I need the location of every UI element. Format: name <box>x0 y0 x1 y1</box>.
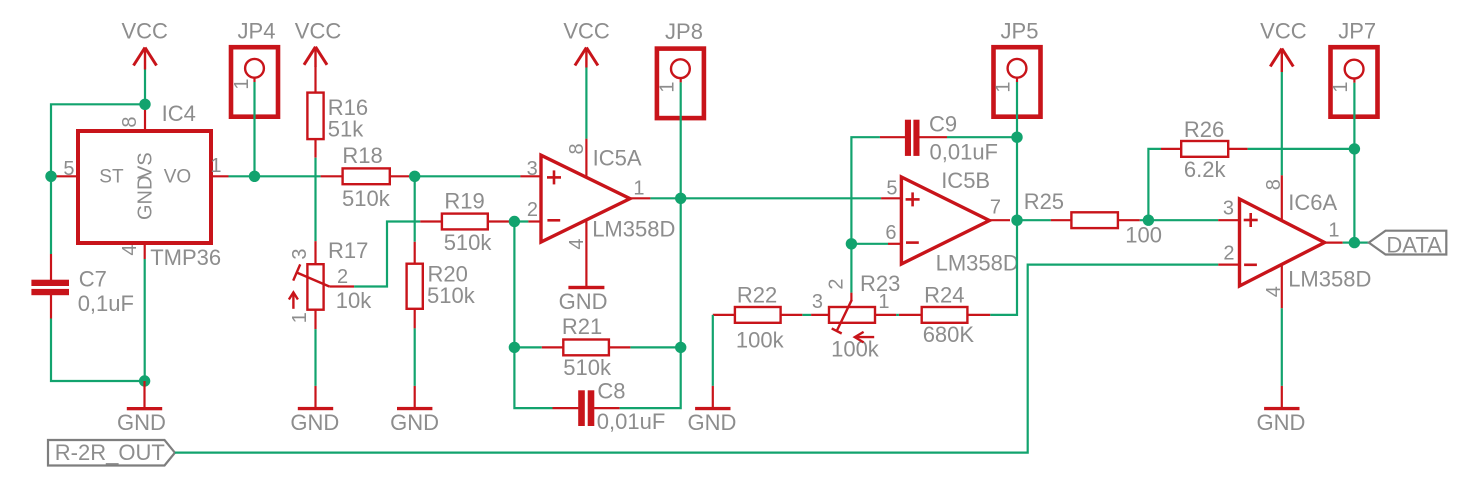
power symbol VCC (net VCC, at IC4 pin 8) <box>121 19 168 70</box>
wire IC5A output to IC5B pin 5 <box>650 197 881 199</box>
junction at R21 left <box>509 342 520 353</box>
junction above IC4 pin 8 <box>139 99 150 110</box>
svg-text:R-2R_OUT: R-2R_OUT <box>55 440 165 465</box>
svg-text:IC5A: IC5A <box>593 146 642 171</box>
wire to R21 left <box>514 346 541 348</box>
svg-text:LM358D: LM358D <box>1288 267 1371 292</box>
connector JP7 <box>1330 19 1378 117</box>
wire R20 to GND <box>414 328 416 386</box>
pin 3 stub of R23 <box>811 291 829 315</box>
svg-text:2: 2 <box>337 266 348 288</box>
svg-text:8: 8 <box>566 143 588 154</box>
junction at IC6A output / DATA <box>1349 237 1360 248</box>
pin 2 stub of R23 <box>826 278 852 300</box>
svg-text:3: 3 <box>289 249 311 260</box>
pin 2 stub of IC6A <box>1218 242 1238 264</box>
wire R25 to IC6A pin 3 <box>1140 219 1218 221</box>
connector JP5 <box>993 19 1041 117</box>
pin 1 stub of IC6A <box>1325 219 1343 242</box>
resistor R26 6.2k <box>1161 117 1248 182</box>
svg-text:JP7: JP7 <box>1338 19 1376 44</box>
svg-text:IC4: IC4 <box>162 101 196 126</box>
svg-text:680K: 680K <box>923 322 975 347</box>
svg-text:1: 1 <box>289 312 311 323</box>
wire VCC to IC5A pin 8 <box>585 68 587 139</box>
svg-text:1: 1 <box>1330 81 1352 92</box>
wire R22 left down to GND <box>712 315 714 386</box>
wire JP5 junction down to IC5B output <box>1016 137 1018 220</box>
svg-text:GND: GND <box>134 176 156 220</box>
svg-text:C9: C9 <box>929 111 957 136</box>
resistor R19 510k <box>420 188 509 254</box>
svg-text:100k: 100k <box>736 327 785 352</box>
junction at IC5B output <box>1011 215 1022 226</box>
resistor R24 680K <box>899 282 990 347</box>
svg-text:510k: 510k <box>444 230 493 255</box>
net flag DATA <box>1369 231 1447 258</box>
wiper of R17 with slot tick <box>293 264 329 286</box>
wire ST junction down to C7 <box>50 176 52 254</box>
svg-text:IC6A: IC6A <box>1288 190 1337 215</box>
svg-text:VCC: VCC <box>295 19 342 44</box>
pin stub R20 top <box>414 242 416 264</box>
svg-text:510k: 510k <box>342 186 391 211</box>
power symbol VCC (above R16) <box>295 19 342 67</box>
capacitor C8 0,01uF <box>553 378 666 433</box>
svg-text:100: 100 <box>1125 223 1162 248</box>
svg-text:510k: 510k <box>427 283 476 308</box>
wire IC5B output junction down to R24 <box>990 220 1017 315</box>
svg-text:GND: GND <box>117 410 166 435</box>
svg-text:GND: GND <box>688 410 737 435</box>
svg-text:5: 5 <box>886 177 897 199</box>
pin 4 stub of IC5A <box>566 220 588 286</box>
plus input marker IC5B <box>906 198 920 201</box>
pin 1 stub of IC5A <box>630 178 650 200</box>
svg-text:1: 1 <box>657 81 679 92</box>
wire R19 to IC5A pin 2 <box>510 220 529 222</box>
pin 1 stub of JP4 <box>253 78 255 82</box>
svg-text:2: 2 <box>1223 242 1234 264</box>
minus input marker IC5A <box>547 219 560 222</box>
junction at R25 / R26 <box>1143 215 1154 226</box>
wire R22 to R23 pin 3 <box>802 314 811 316</box>
pin 1 stub of JP5 <box>1016 78 1018 82</box>
svg-text:1: 1 <box>210 155 221 177</box>
wire R17 pin 1 to GND <box>314 329 316 386</box>
pin 1 stub of R17 <box>289 309 316 330</box>
wire JP7 junction down to DATA node <box>1353 149 1355 243</box>
op-amp U IC5B LM358D <box>901 168 1018 276</box>
pin 8 stub of IC6A <box>1263 175 1285 220</box>
pin 6 stub of IC5B <box>885 222 900 244</box>
pin 1 (VO) stub of IC4 <box>210 155 228 177</box>
wire junction up to R26 <box>1148 149 1161 220</box>
wire C9 right to JP5 junction <box>947 136 1017 138</box>
svg-text:R17: R17 <box>328 238 368 263</box>
wire JP5 pin 1 down to C9 junction <box>1016 82 1018 137</box>
svg-text:2: 2 <box>826 278 848 289</box>
svg-text:C7: C7 <box>79 267 107 292</box>
adjustment arrow of R23 <box>855 332 874 343</box>
svg-text:7: 7 <box>990 196 1001 218</box>
svg-text:VCC: VCC <box>563 19 610 44</box>
op-amp U IC6A LM358D <box>1240 190 1372 292</box>
junction at R18/R20 <box>409 171 420 182</box>
svg-text:R24: R24 <box>924 282 964 307</box>
trimmer R23 100k body <box>829 271 900 362</box>
wire R21 left junction down to C8 <box>514 347 552 408</box>
svg-text:6: 6 <box>885 222 896 244</box>
svg-text:8: 8 <box>1263 179 1285 190</box>
wire R16 to R17 <box>314 158 316 242</box>
minus input marker IC5B <box>906 241 919 244</box>
wire VCC down to R16 <box>314 66 316 93</box>
resistor R20 510k <box>407 262 476 309</box>
wire R-2R_OUT to IC6A pin 2 <box>175 265 1218 453</box>
svg-text:JP5: JP5 <box>1001 19 1039 44</box>
temperature sensor IC4 TMP36 body <box>78 101 221 270</box>
svg-text:VO: VO <box>164 166 191 187</box>
op-amp U IC5A LM358D <box>541 146 675 242</box>
svg-text:10k: 10k <box>336 288 372 313</box>
svg-text:3: 3 <box>812 291 823 313</box>
svg-text:VCC: VCC <box>1260 19 1307 44</box>
svg-text:6.2k: 6.2k <box>1184 157 1227 182</box>
resistor R22 100k <box>713 282 803 352</box>
plus input marker IC5A <box>547 176 561 179</box>
svg-text:GND: GND <box>290 410 339 435</box>
svg-text:GND: GND <box>1256 410 1305 435</box>
wire junction up to C9 <box>851 137 880 244</box>
resistor R16 51k <box>307 93 368 142</box>
svg-text:4: 4 <box>566 238 588 249</box>
junction at C9 / JP5 <box>1011 132 1022 143</box>
svg-text:R26: R26 <box>1184 117 1224 142</box>
wire R21 right to junction <box>630 346 680 348</box>
resistor R25 100 <box>1024 189 1162 248</box>
pin 4 (GND) stub of IC4 <box>119 243 145 259</box>
wire VO net from IC4 to R18 <box>229 175 321 177</box>
svg-text:R21: R21 <box>562 314 602 339</box>
adjustment arrow of R17 <box>289 292 298 308</box>
plus input marker IC6A <box>1244 219 1258 222</box>
resistor R18 510k <box>321 143 410 211</box>
wire C7 bottom to GND junction <box>51 319 145 382</box>
pin 3 stub of IC5A <box>520 158 540 180</box>
power symbol VCC (above IC6A) <box>1260 19 1307 72</box>
svg-text:4: 4 <box>119 244 141 255</box>
svg-text:LM358D: LM358D <box>936 251 1019 276</box>
junction at R21 right <box>675 342 686 353</box>
junction at IC5B pin 6 <box>846 238 857 249</box>
wire IC5A pin 2 node down to R21 <box>513 222 515 348</box>
pin 3 stub of R17 <box>289 241 316 264</box>
pin 7 stub of IC5B <box>989 196 1010 220</box>
junction at IC5A output / JP8 <box>675 193 686 204</box>
junction at R26 / JP7 <box>1349 143 1360 154</box>
pin stub R20 bottom <box>414 309 416 329</box>
svg-text:0,1uF: 0,1uF <box>78 291 134 316</box>
wiper of R23 with slot tick <box>832 300 852 334</box>
svg-text:R22: R22 <box>737 282 777 307</box>
capacitor C7 0,1uF <box>31 254 134 319</box>
svg-text:C8: C8 <box>597 378 625 403</box>
svg-text:R18: R18 <box>342 143 382 168</box>
ground symbol GND (under R20) <box>390 386 439 435</box>
svg-text:ST: ST <box>99 166 124 187</box>
pin 5 stub of IC5B <box>881 177 900 199</box>
net flag R-2R_OUT <box>48 440 175 466</box>
wire R26 right to JP7 net <box>1248 148 1355 150</box>
svg-text:0,01uF: 0,01uF <box>930 140 999 165</box>
svg-text:0,01uF: 0,01uF <box>597 409 666 434</box>
wire junction down to R20 <box>414 176 416 242</box>
wire VCC to junction above IC4 <box>144 70 146 105</box>
connector JP4 <box>231 19 278 117</box>
svg-text:8: 8 <box>119 116 141 127</box>
pin 8 stub of IC5A <box>566 139 588 178</box>
wire C8 right up to R21 right junction <box>620 347 681 408</box>
svg-text:1: 1 <box>993 81 1015 92</box>
svg-text:1: 1 <box>231 78 253 89</box>
wire JP8 pin 1 down to IC5A output net <box>680 82 682 198</box>
wire junction to DATA flag <box>1354 242 1368 244</box>
svg-text:LM358D: LM358D <box>592 217 675 242</box>
svg-text:3: 3 <box>1223 197 1234 219</box>
connector JP8 <box>657 19 704 118</box>
svg-text:510k: 510k <box>563 355 612 380</box>
pin 2 (wiper) stub of R17 <box>329 266 354 288</box>
svg-text:VCC: VCC <box>121 19 168 44</box>
svg-text:2: 2 <box>527 199 538 221</box>
ground symbol GND (under R22) <box>688 386 737 435</box>
wire from VCC junction left and down to ST pin <box>51 104 145 176</box>
pin 1 stub of JP8 <box>680 78 682 82</box>
pin 1 stub of R23 <box>875 291 896 315</box>
wire pin 6 to junction <box>851 243 888 245</box>
ground symbol GND (under R17) <box>290 386 339 435</box>
pin 3 stub of IC6A <box>1218 197 1238 220</box>
wire R17 wiper to R19 <box>354 222 420 287</box>
svg-text:1: 1 <box>878 291 889 313</box>
power symbol VCC (above IC5A) <box>563 19 610 68</box>
svg-text:R25: R25 <box>1024 189 1064 214</box>
junction at R19/IC5A pin 2 <box>509 216 520 227</box>
wire VCC to IC6A pin 8 <box>1281 72 1283 175</box>
resistor R21 510k <box>542 314 631 380</box>
wire R23 pin 1 to R24 <box>896 314 899 316</box>
pin 1 stub of JP7 <box>1353 79 1355 83</box>
ground symbol GND (under IC4) <box>117 381 166 435</box>
svg-text:IC5B: IC5B <box>941 168 990 193</box>
wire IC4 pin 4 down to GND junction <box>144 259 146 381</box>
svg-text:5: 5 <box>63 158 74 180</box>
wire JP4 pin 1 down to VO net <box>253 82 255 176</box>
svg-text:GND: GND <box>559 289 608 314</box>
junction at IC4 pin 5 / C7 <box>45 171 56 182</box>
wire IC6A pin 4 to GND <box>1281 308 1283 386</box>
svg-text:R19: R19 <box>444 188 484 213</box>
svg-text:JP8: JP8 <box>665 19 703 44</box>
wire JP7 pin 1 down to R26 junction <box>1353 83 1355 149</box>
wire R21 right junction up to output net <box>680 198 682 347</box>
ground symbol GND (under IC6A) <box>1256 386 1305 435</box>
pin 5 (ST) stub of IC4 <box>51 158 78 180</box>
svg-text:JP4: JP4 <box>238 19 276 44</box>
capacitor C9 0,01uF <box>880 111 998 164</box>
svg-text:VS: VS <box>134 152 156 179</box>
junction at JP4/VO <box>249 171 260 182</box>
pin 8 (VS) stub of IC4 <box>119 104 145 131</box>
svg-text:1: 1 <box>1328 219 1339 241</box>
svg-text:100k: 100k <box>831 337 880 362</box>
svg-text:51k: 51k <box>328 116 364 141</box>
pin stub R16 bottom <box>314 139 316 158</box>
ground symbol GND (under IC5A) <box>559 286 608 314</box>
junction at IC4 GND node <box>139 375 150 386</box>
pin 4 stub of IC6A <box>1263 264 1285 308</box>
wire IC5B output to R25 <box>1017 219 1051 221</box>
wire IC6A output to junction <box>1343 242 1355 244</box>
svg-text:4: 4 <box>1263 286 1285 297</box>
svg-text:DATA: DATA <box>1386 232 1442 257</box>
pin 2 stub of IC5A <box>527 199 540 222</box>
svg-text:3: 3 <box>527 158 538 180</box>
svg-text:GND: GND <box>390 410 439 435</box>
minus input marker IC6A <box>1244 263 1257 266</box>
svg-text:1: 1 <box>633 178 644 200</box>
wire R18 to IC5A pin 3 <box>409 175 520 177</box>
svg-text:TMP36: TMP36 <box>150 245 221 270</box>
wire IC5B pin 6 junction down to R23 pin 2 <box>850 244 852 293</box>
trimmer R17 10k body <box>307 238 372 313</box>
